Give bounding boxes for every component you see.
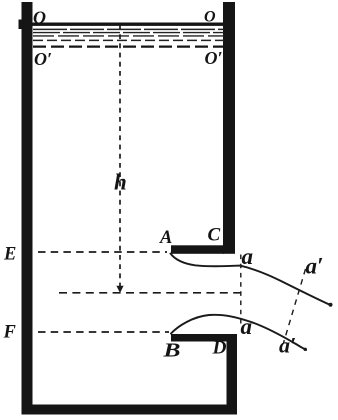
lower jet curve bbox=[171, 315, 306, 350]
upper right wall bbox=[223, 2, 235, 254]
water level dashed line O' bbox=[33, 45, 224, 47]
svg-text:C: C bbox=[208, 225, 221, 246]
svg-text:O: O bbox=[204, 8, 216, 25]
water surface line O-O bbox=[25, 23, 234, 26]
dashed line E-A bbox=[38, 251, 167, 253]
svg-text:B: B bbox=[162, 340, 180, 362]
water shading line 3 bbox=[33, 35, 224, 37]
h measure dashed vertical line bbox=[119, 25, 121, 286]
dashed line F-B bbox=[38, 331, 169, 333]
middle dashed line bbox=[59, 292, 241, 294]
left wall nub bbox=[19, 20, 24, 30]
svg-text:a: a bbox=[242, 244, 254, 269]
svg-text:a: a bbox=[241, 314, 253, 339]
upper jet curve bbox=[171, 254, 332, 306]
bottom wall bbox=[22, 405, 238, 415]
slanted dashed line a'-a' bbox=[284, 269, 306, 343]
svg-text:a′: a′ bbox=[306, 254, 324, 279]
water shading line 1 bbox=[33, 28, 224, 30]
lower jet end blob bbox=[304, 348, 307, 351]
lower flange B-D bbox=[171, 334, 227, 342]
svg-text:O: O bbox=[33, 8, 46, 28]
lower right wall bbox=[227, 334, 238, 414]
svg-text:F: F bbox=[3, 323, 17, 343]
h arrowhead bbox=[116, 286, 123, 293]
svg-text:E: E bbox=[3, 245, 16, 265]
svg-text:O′: O′ bbox=[205, 48, 223, 68]
left wall bbox=[22, 2, 33, 415]
svg-text:a′: a′ bbox=[279, 333, 296, 358]
upper jet end blob bbox=[329, 303, 333, 307]
water shading line 2 bbox=[33, 32, 224, 34]
upper flange A-C bbox=[171, 245, 224, 254]
vertical dashed line a-a bbox=[240, 255, 242, 329]
svg-text:A: A bbox=[159, 228, 172, 248]
svg-text:h: h bbox=[114, 170, 127, 195]
svg-text:O′: O′ bbox=[34, 49, 52, 69]
svg-text:D: D bbox=[211, 339, 226, 359]
water shading dashed line 4 bbox=[33, 39, 224, 41]
